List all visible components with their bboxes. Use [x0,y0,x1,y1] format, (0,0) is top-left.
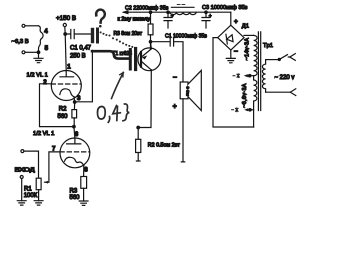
resistor collector (to T1) [148,12,153,49]
wire +150V to VL1 anode [65,27,66,71]
VL1a cathode [60,89,74,97]
wire bridge AC right to winding [244,34,254,36]
wire primary bottom [266,91,290,93]
pin 3 [77,95,81,102]
svg-text:R3: R3 [70,189,78,195]
pencil coupling cap bars [130,49,135,70]
T1 leads [150,49,153,71]
ground bridge [226,58,235,62]
svg-text:R1: R1 [24,186,32,192]
wire primary top to switch [266,59,279,61]
VL1a plate [60,71,74,77]
pin 8 [84,167,88,174]
svg-text:~6,6v·3A: ~6,6v·3A [242,83,248,108]
wire bridge minus to ground [230,50,232,58]
svg-text:100К: 100К [24,193,38,199]
terminal bottom 6.3V [22,51,39,54]
junction SRPP node [73,125,76,128]
VL1b cathode [65,157,84,165]
tap 14v mark [233,74,240,78]
svg-text:Д1: Д1 [242,24,249,30]
wire cathode down [73,97,76,110]
svg-text:R3 8ом 20вт: R3 8ом 20вт [114,31,143,37]
label plus [234,19,238,26]
svg-text:+: + [234,19,238,26]
svg-text:−: − [234,49,238,56]
pin 7 [52,146,56,153]
transformer primary winding [262,60,265,93]
bridge rectifier D1: diamond [218,25,244,50]
mains pin bottom [290,89,296,96]
junction cathode/feedback [73,101,76,104]
svg-text:3: 3 [77,95,81,102]
svg-text:6: 6 [75,131,79,138]
supply rail to 2nd channel: arrow [122,10,231,14]
tap 14v arrow [244,74,254,77]
T1 emitter (arrow to base) [142,49,152,60]
svg-text:C1 10000мкф 35в: C1 10000мкф 35в [165,33,207,39]
svg-text:560: 560 [58,114,69,120]
wire feedback to output [75,50,93,101]
terminal input hot [21,150,39,179]
pencil dotted trail [100,31,137,49]
svg-text:R2: R2 [59,107,67,113]
transformer Tr1 secondary 14v winding [254,35,258,75]
pencil thick wire to base [92,51,128,58]
pencil mark question [96,10,105,28]
label C1 output cap [165,33,207,39]
wire SRPP node to VL1b anode [74,127,75,139]
transformer core [258,32,260,111]
svg-text:2: 2 [43,79,47,86]
tube label 1/2 VL1 lower [33,131,54,137]
junction rail/collector resistor [149,11,151,13]
mains pin top [288,54,295,61]
transformer secondary 6.6v winding [254,76,257,127]
svg-text:1/2 VL 1: 1/2 VL 1 [33,131,54,137]
wire grid to SRPP node [40,84,74,127]
pencil handwriting 0,47 [97,104,129,122]
svg-text:1/2 VL 1: 1/2 VL 1 [27,73,48,79]
label D1 [242,24,249,30]
tap 6.6v mark [232,108,239,112]
capacitor C1 0,47 [65,30,91,39]
inductor filter choke [170,4,196,14]
terminal +150V [63,23,66,26]
D1 internal diode [226,33,233,44]
wire bridge AC left loop [213,38,254,127]
label minus [234,49,238,56]
junction R2 0.5 [137,126,140,129]
label k 2mu kanalu [118,17,151,23]
switch mains [278,55,287,61]
wire grid to R1 wiper [49,152,60,182]
svg-text:+: + [173,104,177,111]
resistor R3 560 [81,177,87,202]
heater of VL1 (pins 4-5) [38,26,43,50]
T1 base bar [140,52,142,67]
svg-text:4: 4 [44,28,48,35]
svg-text:560: 560 [70,195,81,201]
svg-text:8 Ом: 8 Ом [186,87,191,96]
wire bridge plus to rail [230,12,232,25]
svg-text:Tр1: Tр1 [263,43,273,49]
transistor T1 envelope [138,48,161,71]
pin 1 [67,64,71,71]
R1 wiper arrow [45,181,49,184]
junction rail/C2 [167,11,169,13]
pencil capacitor inserted (0,47) [93,29,98,42]
junction C1/anode [64,33,67,36]
wire T1 emitter up (from resistor node) [150,42,153,49]
ground R3 [79,201,88,205]
label R3 [70,189,81,201]
wire cathode to R3 [83,166,85,177]
label R2 0.5om [148,143,181,149]
label 6.6v 3A (rotated) [242,83,248,108]
tap 6.6v arrow [244,108,253,111]
label 14v 3A (rotated) [245,38,251,61]
resistor R2 0.5om 2vt [136,128,141,162]
svg-text:~14v·3A: ~14v·3A [245,38,251,61]
ground R1 [34,201,43,205]
terminal top 6.3V [22,24,38,27]
label R1 [24,186,38,199]
junction T1/C1out [149,41,151,43]
pencil arrow to T1 [112,73,124,99]
svg-text:C3 10000мкф 35в: C3 10000мкф 35в [202,5,248,11]
capacitor C1 10000 output [151,38,184,83]
svg-text:−: − [173,75,177,82]
pin 4 [44,28,48,35]
label T1 kt825 [113,51,133,57]
svg-text:8: 8 [84,167,88,174]
svg-text:~ 220 v: ~ 220 v [275,75,295,81]
label 8 Om in driver [186,87,191,96]
wire speaker to return [181,99,184,162]
node ВХОД input label [15,167,35,173]
node ~6,3V heater supply: label [12,39,29,45]
label C2 [125,6,169,12]
capacitor C3 10000 (electrolytic) [202,12,212,28]
loudspeaker driver [180,70,201,110]
resistor R2 560 [72,110,77,127]
label 220v [275,75,295,81]
tube U: 1/2 VL1 upper label [27,73,48,79]
T1 collector [142,62,152,70]
VL1b plate [67,138,81,144]
loudspeaker plus label [173,104,177,111]
ground heater [34,52,43,62]
svg-text:5: 5 [45,45,49,52]
label R2 [58,107,69,120]
label Tr1 [263,43,273,49]
svg-text:1: 1 [67,64,71,71]
svg-text:C2 22000мкф 35в: C2 22000мкф 35в [125,6,169,12]
junction rail/C3 [205,11,207,13]
triode VL1a envelope [51,71,81,101]
label C1 value [70,46,92,60]
wire T1 collector down to R2 [138,70,151,128]
svg-text:C1 0,47: C1 0,47 [70,46,92,52]
label C3 [202,5,248,11]
svg-text:250 В: 250 В [70,54,86,60]
ground input [17,201,26,205]
pin 6 [75,131,79,138]
VL1a grid (dashed) [51,83,81,85]
svg-text:ВХОД: ВХОД [15,167,35,173]
potentiometer R1 100k [36,178,41,201]
svg-text:+: + [209,13,212,19]
junction heater/ground [37,51,40,54]
label R3 8om 20vt (pencil annotation target) [114,31,143,37]
loudspeaker wire (minus) [173,75,177,82]
svg-text:к 2му каналу: к 2му каналу [118,17,151,23]
svg-text:~6,3 В: ~6,3 В [12,39,29,45]
svg-text:+150 В: +150 В [56,15,76,22]
pin 5 [45,45,49,52]
triode VL1b envelope [60,138,90,168]
node +150V: label [56,15,76,22]
terminal input gnd [20,176,23,201]
svg-text:R2 0.5ом 2вт: R2 0.5ом 2вт [148,143,181,149]
capacitor C2 22000 (electrolytic) [164,12,174,28]
VL1b grid (dashed) [60,151,90,153]
pin 2 [43,79,47,86]
